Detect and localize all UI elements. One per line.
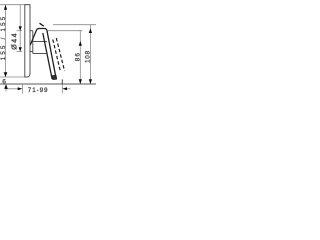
gap dim line lower (5, 84, 7, 92)
sleeve front face (32, 31, 34, 54)
71-99 right ext line (61, 84, 63, 94)
dashed lever tip stub (61, 79, 63, 84)
d44 top ext tick (17, 30, 23, 32)
arrow 155 top (4, 5, 7, 10)
svg-text:155 / 155: 155 / 155 (1, 15, 7, 61)
hub bottom edge (33, 53, 47, 55)
svg-text:86: 86 (75, 52, 82, 61)
sleeve top stub (30, 30, 33, 32)
dim line 86 (79, 31, 81, 84)
dimension line d44 (19, 5, 21, 52)
dim line 108 (89, 25, 91, 84)
plate bottom extension line (0, 76, 25, 78)
sleeve bottom stub (30, 51, 33, 53)
arrow d44 bottom (19, 47, 22, 51)
hub top edge (33, 41, 47, 43)
arrow 108 top (89, 28, 92, 33)
dashed swing top dash (40, 23, 44, 26)
arrow d44 top (19, 26, 22, 30)
handle back curve (30, 29, 47, 46)
71-99 right dim line (66, 88, 71, 90)
svg-text:6: 6 (2, 79, 6, 86)
arrow 155 bottom (4, 72, 8, 77)
arrow 86 top (79, 41, 82, 46)
wall line (0, 83, 96, 85)
svg-text:71-99: 71-99 (28, 87, 49, 94)
dashed lever right edge (56, 38, 64, 71)
d44 bottom ext tick (17, 51, 23, 53)
71-99 left dim line (6, 88, 19, 90)
svg-text:Ø44: Ø44 (11, 32, 18, 50)
top extension line (0, 4, 30, 6)
arrow 86 bottom (79, 79, 82, 84)
dimension line 155 (5, 5, 7, 77)
lever tip cap (53, 76, 57, 80)
arrow 71-99 left (18, 87, 23, 90)
ext line 108 (53, 24, 96, 26)
dashed lever left edge (53, 40, 60, 71)
ext line 86 (47, 30, 82, 32)
lever left edge (43, 33, 52, 79)
arrow 71-99 right (62, 87, 67, 90)
71-99 left ext line (21, 84, 23, 94)
svg-text:108: 108 (85, 50, 92, 63)
escutcheon plate (25, 5, 30, 77)
arrow 108 bottom (89, 79, 92, 84)
arrow gap up (4, 84, 8, 89)
lever right edge (47, 31, 56, 79)
